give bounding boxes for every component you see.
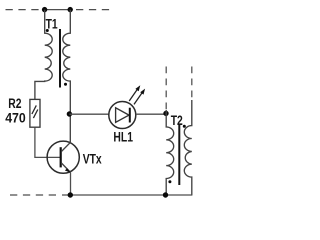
LED diode triangle	[116, 108, 129, 123]
T1 secondary polarity dot	[64, 83, 67, 86]
LED light arrow 1 shaft	[129, 89, 138, 102]
T2 core	[178, 124, 180, 186]
LED cathode bar	[129, 108, 131, 123]
dashed continuation above T2 primary	[165, 67, 167, 111]
transistor emitter diagonal	[61, 163, 70, 173]
resistor R2 body	[30, 99, 40, 127]
top supply rail (dashed left part)	[6, 9, 43, 11]
wire R2 bottom to transistor base	[35, 127, 61, 157]
wire LED cathode to T2	[136, 113, 166, 115]
transistor VTx base bar	[60, 147, 62, 167]
svg-text:HL1: HL1	[113, 129, 133, 145]
bottom rail (solid part to T2 secondary)	[62, 194, 192, 196]
dashed continuation above T2 secondary	[191, 67, 193, 101]
junction node emitter / bottom rail	[68, 192, 73, 197]
bottom rail (dashed left part)	[10, 194, 58, 196]
T2 secondary polarity dot	[183, 125, 186, 128]
LED light arrow 2 head	[140, 89, 145, 95]
junction node LED wire / T2 primary	[163, 111, 168, 116]
svg-text:VTx: VTx	[83, 151, 102, 167]
emitter arrowhead	[65, 168, 71, 172]
transistor collector diagonal	[61, 142, 70, 151]
top supply rail (solid middle)	[43, 9, 71, 11]
wire emitter down to bottom rail	[70, 172, 72, 195]
LED light arrow 1 head	[135, 85, 140, 91]
wire junction to LED anode	[69, 113, 109, 115]
LED light arrow 2 shaft	[134, 92, 143, 105]
junction node T2 primary / bottom rail	[163, 192, 168, 197]
T1 secondary winding (right, lead continues down to transistor collector)	[63, 10, 71, 143]
T1 core	[59, 29, 61, 88]
svg-text:470: 470	[5, 110, 26, 126]
junction node collector / LED branch	[67, 111, 72, 116]
resistor R2 power-rating slashes	[32, 105, 36, 114]
T1 primary winding (left, with lead from top rail and jog down to R2)	[35, 10, 52, 100]
T2 secondary winding (right)	[184, 100, 192, 195]
T1 primary polarity dot	[46, 29, 49, 32]
top supply rail (dashed right part)	[76, 9, 110, 11]
transistor VTx circle	[47, 141, 79, 173]
T2 primary winding (left)	[166, 110, 174, 195]
svg-text:T2: T2	[171, 112, 183, 128]
T2 primary polarity dot	[168, 180, 171, 183]
junction node at T1 primary top	[42, 7, 47, 12]
junction node at T1 secondary top	[68, 7, 73, 12]
LED HL1 circle	[109, 102, 136, 129]
